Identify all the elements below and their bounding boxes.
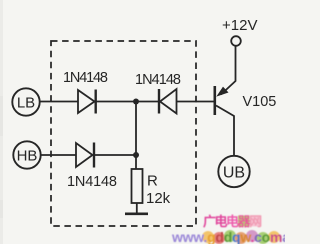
svg-text:V105: V105 [243, 94, 277, 110]
svg-text:HB: HB [17, 148, 38, 165]
svg-text:R: R [147, 173, 158, 190]
svg-text:广电电器网: 广电电器网 [203, 214, 262, 229]
svg-text:+12V: +12V [222, 17, 257, 34]
svg-text:12k: 12k [146, 190, 171, 207]
svg-text:LB: LB [17, 95, 35, 112]
svg-text:UB: UB [223, 165, 245, 182]
svg-text:www.gddqw.coma: www.gddqw.coma [171, 229, 285, 244]
svg-text:1N4148: 1N4148 [63, 70, 108, 86]
svg-text:1N4148: 1N4148 [67, 174, 117, 190]
svg-text:1N4148: 1N4148 [135, 72, 181, 88]
